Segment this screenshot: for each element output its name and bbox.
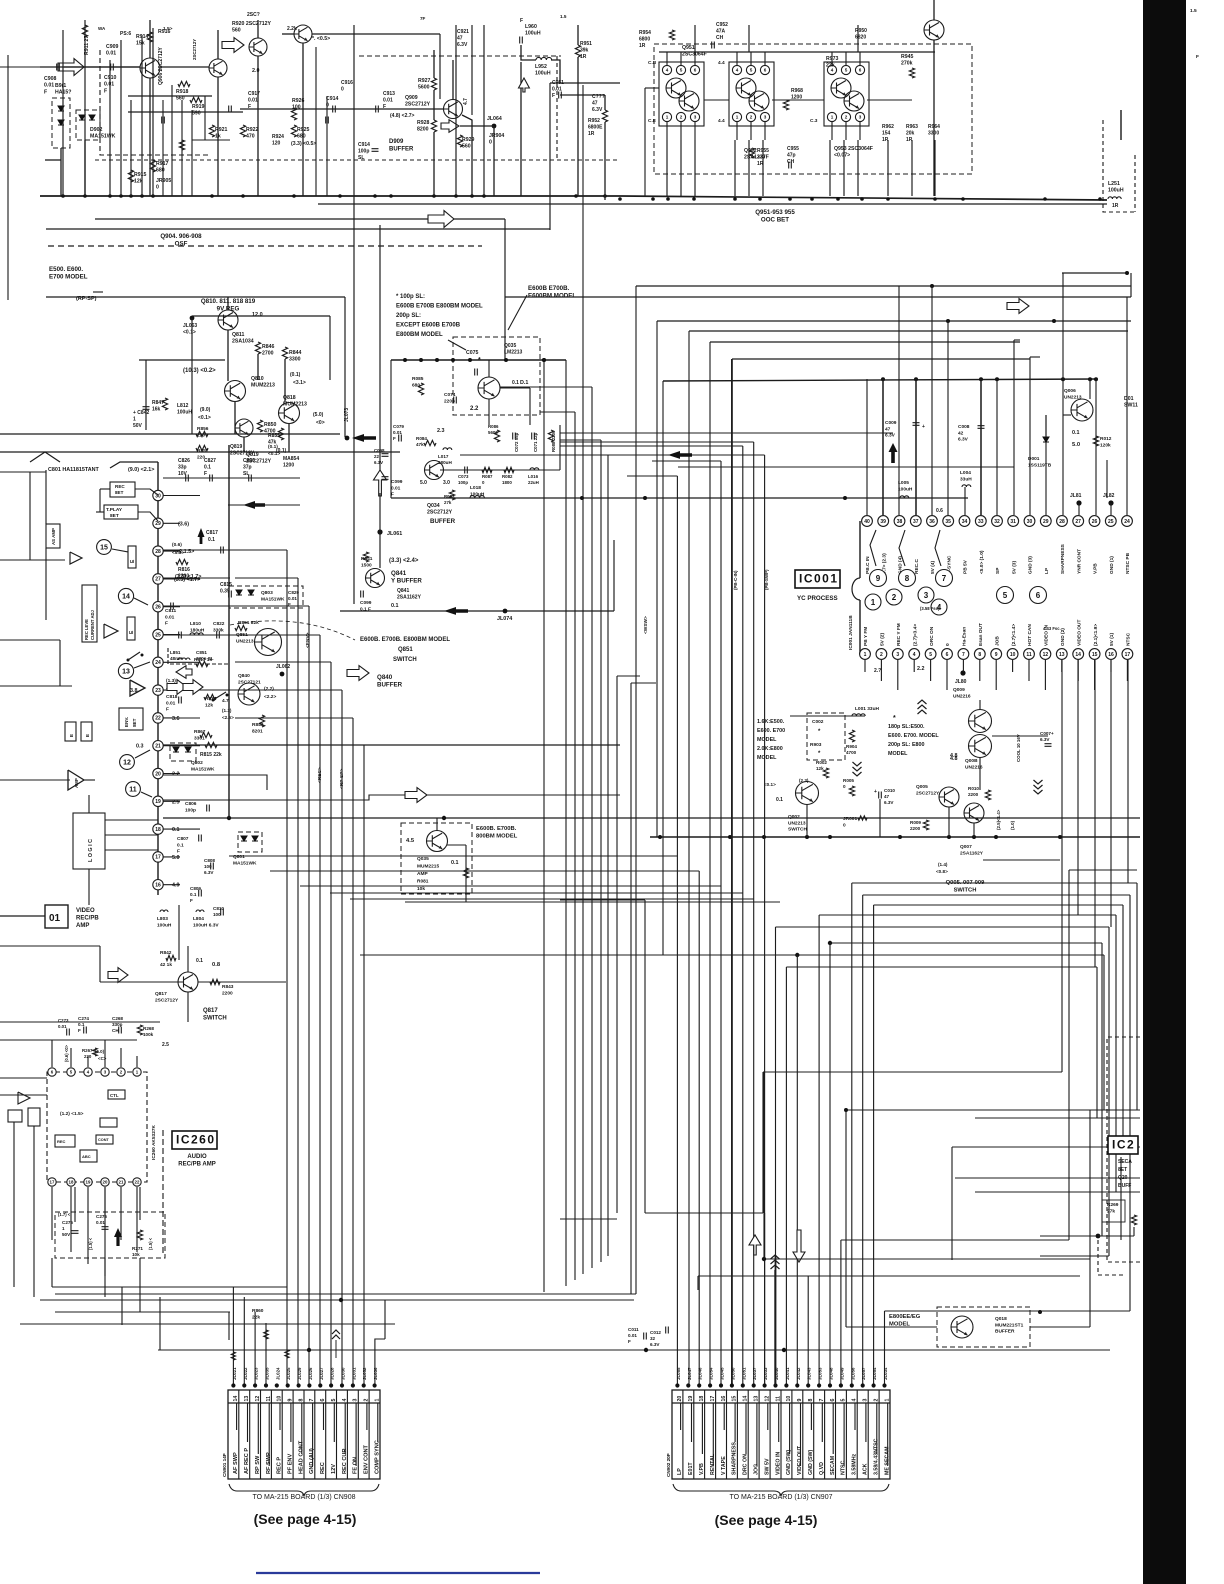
wire pin30: [163, 495, 200, 497]
svg-text:R268: R268: [143, 1026, 154, 1031]
svg-text:2: 2: [892, 593, 897, 602]
wire q035: [436, 818, 438, 831]
pin 4 CN908: [346, 1390, 348, 1479]
cap C072: [513, 433, 516, 440]
pin 1 IC001: [860, 649, 871, 660]
svg-text:JL049: JL049: [839, 1367, 844, 1380]
svg-text:12: 12: [123, 760, 131, 767]
wire col1312: [55, 1311, 230, 1313]
resistor R857: [196, 445, 208, 450]
svg-text:2SA1162Y: 2SA1162Y: [397, 595, 422, 601]
svg-text:BUFFER: BUFFER: [377, 682, 403, 689]
svg-text:JL064: JL064: [487, 116, 502, 122]
svg-text:JL050: JL050: [730, 1367, 735, 1380]
svg-text:AMP: AMP: [76, 923, 89, 929]
wire re h1178: [955, 1177, 1140, 1179]
wire jl064: [460, 125, 494, 127]
svg-text:(2.5)<1.4>: (2.5)<1.4>: [996, 809, 1001, 830]
svg-text:680: 680: [156, 168, 165, 174]
svg-text:R903: R903: [810, 742, 822, 748]
blue pen line: [256, 1572, 540, 1574]
svg-text:Q034: Q034: [427, 503, 440, 509]
svg-text:C072 55p: C072 55p: [514, 432, 519, 452]
svg-text:3: 3: [924, 591, 929, 600]
wire mid bus 837: [650, 836, 1140, 838]
svg-text:GND (2): GND (2): [1060, 628, 1066, 646]
transistor Q008a: [969, 710, 992, 733]
svg-text:100: 100: [213, 912, 221, 917]
svg-text:10: 10: [1010, 652, 1016, 658]
svg-text:0.01: 0.01: [288, 596, 297, 601]
svg-text:31: 31: [1010, 519, 1016, 525]
pin 20 of IC201: [153, 768, 163, 778]
svg-text:19: 19: [688, 1396, 694, 1402]
svg-text:Q802: Q802: [191, 760, 203, 766]
svg-text:12: 12: [1043, 652, 1049, 658]
resistor R928: [431, 120, 436, 132]
svg-text:<C>: <C>: [98, 1056, 107, 1061]
svg-text:42: 42: [958, 430, 964, 436]
svg-text:MA151WK: MA151WK: [233, 860, 257, 866]
wire pin16: [163, 884, 180, 886]
pin dot CN907 2: [872, 1383, 876, 1387]
wire q904: [302, 43, 304, 196]
IC260 inner bits: [108, 1090, 125, 1099]
svg-text:5: 5: [929, 652, 932, 658]
svg-text:0.01: 0.01: [628, 1333, 637, 1338]
svg-text:9: 9: [288, 1399, 294, 1402]
svg-text:42 1k: 42 1k: [160, 962, 172, 968]
svg-text:<2.2>: <2.2>: [264, 694, 276, 700]
pin 29 IC001: [1040, 516, 1051, 527]
svg-text:Q953 2SC3064F: Q953 2SC3064F: [834, 146, 873, 152]
svg-text:(9.0): (9.0): [200, 407, 211, 413]
box E1: [128, 546, 136, 568]
wire re h1192: [975, 1191, 1140, 1193]
pin 20 CN907 sep: [682, 1390, 684, 1479]
svg-text:R816: R816: [178, 567, 190, 573]
wire bundleB x287: [286, 550, 288, 1384]
svg-text:C955: C955: [787, 146, 799, 152]
svg-text:100p: 100p: [458, 480, 468, 485]
svg-text:C.3: C.3: [810, 118, 818, 124]
node 15: [97, 540, 112, 555]
svg-text:JL037: JL037: [752, 1367, 757, 1380]
pin 12 CN907 sep: [769, 1390, 771, 1479]
wire feeder pin15 heavy: [731, 359, 733, 1384]
svg-text:JL052: JL052: [362, 1367, 367, 1380]
wire pin24 v: [1126, 297, 1128, 515]
svg-text:PF ENV: PF ENV: [288, 1454, 294, 1474]
svg-text:BUFFER: BUFFER: [389, 147, 414, 153]
svg-text:10: 10: [277, 1396, 283, 1402]
transistor Q840: [238, 683, 260, 705]
wire feeder pin11 heavy: [775, 1255, 777, 1384]
svg-text:R915: R915: [134, 172, 147, 178]
svg-text:(1.2) <1.5>: (1.2) <1.5>: [60, 1111, 84, 1117]
transistor Q817: [178, 972, 198, 992]
arrow hd conn: [793, 1230, 805, 1262]
svg-text:JL073: JL073: [344, 408, 350, 422]
svg-text:R844: R844: [289, 350, 302, 356]
box E2: [127, 617, 135, 640]
svg-text:3300: 3300: [289, 357, 301, 363]
svg-text:(3.6): (3.6): [178, 521, 189, 527]
svg-text:R924: R924: [272, 134, 284, 140]
wire rcol 1116: [1115, 915, 1117, 1192]
wire upper h433: [560, 432, 893, 434]
svg-text:JL057: JL057: [861, 1367, 866, 1380]
svg-text:12: 12: [764, 1396, 770, 1402]
svg-text:37p: 37p: [243, 465, 252, 471]
resistor R084: [424, 440, 436, 445]
wire q909c: [433, 50, 435, 78]
svg-text:0.1: 0.1: [196, 958, 203, 964]
svg-text:<REC>: <REC>: [317, 767, 323, 783]
svg-text:7: 7: [962, 652, 965, 658]
svg-text:Q002: Q002: [788, 814, 800, 820]
svg-text:0.01: 0.01: [58, 1024, 67, 1029]
dashed box Q018: [937, 1307, 1030, 1347]
wire bundleA x566: [565, 360, 567, 1286]
svg-text:<0>: <0>: [316, 420, 325, 426]
svg-text:23: 23: [155, 688, 161, 694]
svg-text:680: 680: [412, 382, 420, 388]
svg-text:17: 17: [1125, 652, 1131, 658]
svg-text:100k: 100k: [143, 1032, 154, 1037]
svg-text:C917: C917: [248, 91, 260, 97]
resistor R867: [200, 732, 212, 737]
inductor L952: [536, 57, 552, 60]
callout line: [448, 340, 466, 350]
svg-text:JL036: JL036: [373, 1367, 378, 1380]
svg-text:AUDIO: AUDIO: [187, 1154, 207, 1160]
svg-text:1: 1: [871, 598, 876, 607]
svg-text:JL026: JL026: [308, 1367, 313, 1380]
cap C914a: [333, 106, 336, 113]
svg-text:D01: D01: [1124, 396, 1134, 402]
svg-text:IC260 AK5327K: IC260 AK5327K: [151, 1124, 157, 1160]
pin dot CN907 9: [795, 1383, 799, 1387]
svg-text:(2.2): (2.2): [264, 686, 274, 692]
svg-text:24: 24: [1124, 519, 1130, 525]
svg-text:0.1: 0.1: [451, 860, 459, 866]
wire feeder pin1: [884, 1311, 886, 1384]
cap C818: [179, 697, 182, 704]
svg-text:MUM221ST1: MUM221ST1: [995, 1322, 1024, 1328]
wire q817: [100, 981, 178, 983]
transistor Q909: [444, 100, 463, 119]
svg-text:4700: 4700: [846, 750, 857, 755]
svg-text:F: F: [190, 898, 193, 903]
pin 19 IC260 bot: [84, 1178, 92, 1186]
wire ll v2: [33, 1180, 35, 1297]
svg-text:B9(1: B9(1: [55, 83, 66, 89]
svg-text:8: 8: [978, 652, 981, 658]
transistor Q851: [255, 629, 282, 656]
svg-text:3: 3: [896, 652, 899, 658]
svg-text:VIDEO OUT: VIDEO OUT: [1076, 620, 1082, 646]
pin 17 of IC201: [153, 852, 163, 862]
svg-text:R846: R846: [262, 344, 275, 350]
svg-text:32: 32: [650, 1336, 656, 1341]
wire re v2: [1120, 1157, 1122, 1240]
resistor R842: [166, 955, 176, 960]
svg-text:(2.3): (2.3): [799, 778, 809, 783]
svg-text:0: 0: [945, 643, 951, 646]
wire tb v163: [162, 100, 164, 196]
border bar (page binding scan artifact): [1143, 0, 1186, 1584]
pin 33 IC001: [975, 516, 986, 527]
svg-text:SWITCH: SWITCH: [954, 887, 977, 893]
svg-text:33uH: 33uH: [960, 476, 972, 482]
pin 22 IC260 bot: [133, 1178, 141, 1186]
svg-text:MA151WK: MA151WK: [261, 596, 285, 602]
svg-text:Q841: Q841: [391, 570, 407, 577]
pin 10 IC001: [1007, 649, 1018, 660]
svg-text:34: 34: [962, 519, 968, 525]
cap C273: [67, 1029, 70, 1036]
svg-text:C801 HA11815TANT: C801 HA11815TANT: [48, 467, 100, 473]
svg-text:JL041: JL041: [785, 1367, 790, 1380]
pin 6 IC001: [942, 649, 953, 660]
stair dots: [930, 284, 934, 288]
node 4: [931, 599, 947, 615]
svg-text:220: 220: [197, 432, 205, 438]
arrow up c275: [114, 1228, 122, 1246]
svg-text:R084: R084: [416, 436, 427, 441]
svg-text:3: 3: [863, 1399, 869, 1402]
box E pair: [65, 722, 76, 741]
svg-text:2.2: 2.2: [470, 406, 479, 412]
svg-text:1: 1: [736, 115, 739, 120]
svg-text:21: 21: [155, 744, 161, 750]
svg-text:REC: REC: [115, 484, 125, 489]
svg-text:4.7: 4.7: [222, 698, 229, 704]
svg-text:50V: 50V: [62, 1232, 71, 1237]
wire bus360: [391, 359, 566, 361]
svg-text:L803: L803: [157, 916, 168, 922]
svg-text:R088 2200: R088 2200: [551, 430, 556, 452]
wire pin23: [163, 689, 180, 691]
connector CN902 box: [672, 1390, 890, 1479]
pin dot CN907 18: [697, 1383, 701, 1387]
wire rcol 1109: [1108, 927, 1110, 1256]
svg-text:16: 16: [155, 883, 161, 889]
svg-text:* 100p SL:: * 100p SL:: [396, 294, 425, 300]
svg-text:6: 6: [1036, 591, 1041, 600]
pin 18 CN907 sep: [704, 1390, 706, 1479]
svg-text:C851: C851: [196, 650, 207, 655]
wire re h1147: [952, 1146, 1140, 1148]
svg-text:PB Y FM: PB Y FM: [863, 627, 869, 646]
svg-text:C275: C275: [62, 1220, 73, 1225]
svg-text:Q803: Q803: [261, 590, 273, 596]
svg-text:0: 0: [156, 185, 159, 191]
wire pin27: [163, 578, 200, 580]
dashed enclosure Q951-955: [654, 44, 972, 174]
svg-text:R860: R860: [252, 1308, 264, 1314]
svg-text:9: 9: [995, 652, 998, 658]
pin 38 IC001: [894, 516, 905, 527]
transistor Q819: [235, 419, 253, 437]
wire pin29 v: [1045, 415, 1047, 515]
svg-text:220: 220: [84, 1054, 92, 1059]
pin 12 CN908: [260, 1390, 262, 1479]
svg-text:(3.3) <0.5>: (3.3) <0.5>: [291, 141, 316, 147]
resistor R847: [162, 398, 167, 410]
svg-text:6: 6: [320, 1399, 326, 1402]
svg-text:1k: 1k: [215, 134, 221, 140]
svg-text:R841: R841: [361, 556, 373, 562]
pin 6 IC260 top: [48, 1068, 56, 1076]
wire col1348: [158, 1349, 1110, 1351]
switch contacts: [127, 659, 130, 662]
cap C808: [211, 863, 214, 870]
svg-text:SW 5V: SW 5V: [764, 1458, 770, 1475]
svg-text:UN2213: UN2213: [236, 638, 254, 644]
svg-text:JL023: JL023: [254, 1367, 259, 1380]
pin 19 CN907 sep: [693, 1390, 695, 1479]
wire upper h446: [560, 445, 743, 447]
pin 5 CN907 sep: [845, 1390, 847, 1479]
svg-text:<0.8>: <0.8>: [936, 869, 948, 874]
svg-text:AF SWP: AF SWP: [233, 1452, 239, 1474]
svg-text:R920 2SC2712Y: R920 2SC2712Y: [232, 21, 271, 27]
cap C275: [72, 1231, 79, 1234]
pin 19 of IC201: [153, 796, 163, 806]
svg-text:14: 14: [743, 1396, 749, 1402]
svg-text:MA854: MA854: [283, 456, 299, 462]
wire feeder pin18: [698, 871, 700, 1384]
svg-text:6: 6: [830, 1399, 836, 1402]
svg-text:C830: C830: [243, 458, 255, 464]
transistor Q841: [366, 569, 385, 588]
pin 22 of IC201: [153, 713, 163, 723]
node 11: [126, 782, 141, 797]
pin dot CN907 16: [719, 1383, 723, 1387]
svg-text:(See page 4-15): (See page 4-15): [715, 1512, 818, 1528]
dashed box Q035: [401, 823, 472, 894]
svg-text:15: 15: [100, 545, 108, 552]
box REC CURRENT ADJ: [82, 585, 97, 642]
svg-text:REC/PB AMP: REC/PB AMP: [178, 1162, 215, 1168]
resistor R846: [255, 342, 260, 354]
pin 6 CN908: [325, 1390, 327, 1479]
svg-text:11: 11: [266, 1396, 272, 1402]
svg-text:R851 82k: R851 82k: [238, 620, 259, 626]
wire h902: [405, 901, 780, 903]
wire bundleC x617: [616, 676, 618, 1213]
svg-text:1.5: 1.5: [560, 14, 567, 19]
resistor R856: [196, 431, 208, 436]
svg-text:CH: CH: [112, 1028, 119, 1033]
svg-text:15: 15: [732, 1396, 738, 1402]
svg-text:(2.1)<1.9>: (2.1)<1.9>: [1093, 624, 1099, 646]
svg-text:R917: R917: [156, 161, 169, 167]
svg-text:6.3V: 6.3V: [884, 800, 894, 805]
wire bundleA x592: [591, 387, 593, 1268]
wire jl061: [379, 493, 381, 568]
svg-text:SP: SP: [995, 567, 1001, 574]
svg-text:AMP: AMP: [417, 871, 428, 877]
svg-text:R082: R082: [502, 474, 513, 479]
svg-text:SL: SL: [243, 471, 249, 477]
rail dots: [881, 377, 885, 381]
wire stair4: [710, 341, 1020, 343]
svg-text:*. <0.5>: *. <0.5>: [312, 36, 330, 42]
wire rp-sp line: [46, 296, 345, 298]
resistor R917: [150, 160, 155, 172]
svg-text:AMP: AMP: [74, 778, 79, 788]
connector CN901 box: [228, 1390, 380, 1479]
svg-text:26: 26: [1092, 519, 1098, 525]
pin 2 IC001: [876, 649, 887, 660]
svg-text:16: 16: [1108, 652, 1114, 658]
resistor R921: [209, 125, 214, 137]
svg-text:IC260: IC260: [176, 1133, 216, 1147]
wire chain vert 229: [228, 445, 230, 818]
wire feeder CN908 pin1: [375, 1339, 385, 1384]
svg-text:T.PLAY: T.PLAY: [106, 507, 123, 513]
wire L952: [521, 45, 536, 60]
IC260 bot wires: [51, 1187, 53, 1240]
logic wires: [105, 819, 158, 821]
arrow stair: [1007, 299, 1029, 314]
svg-text:<0.1>: <0.1>: [764, 782, 776, 787]
cap C007: [1045, 744, 1052, 747]
cap C815: [229, 591, 232, 598]
svg-text:24: 24: [155, 660, 161, 666]
svg-text:R838: R838: [205, 696, 217, 702]
svg-text:6: 6: [694, 68, 697, 73]
svg-text:0: 0: [843, 784, 846, 789]
svg-text:0: 0: [489, 140, 492, 146]
resistor R926: [291, 108, 296, 120]
svg-text:6.3V: 6.3V: [204, 870, 214, 875]
arrow fl1: [243, 501, 265, 509]
pin 39 IC001: [878, 516, 889, 527]
IC package Q951: [659, 62, 704, 126]
svg-text:27k: 27k: [444, 500, 452, 505]
svg-text:0.01: 0.01: [96, 1220, 105, 1225]
svg-text:8: 8: [905, 574, 910, 583]
svg-text:R271: R271: [132, 1246, 143, 1251]
svg-text:32: 32: [994, 519, 1000, 525]
svg-text:20: 20: [155, 771, 161, 777]
svg-text:F: F: [104, 88, 107, 94]
svg-text:5: 5: [750, 68, 753, 73]
wire tb v316: [315, 47, 317, 196]
svg-text:E600B. E700B. E800BM MODEL: E600B. E700B. E800BM MODEL: [360, 637, 450, 643]
svg-text:4: 4: [852, 1399, 858, 1402]
svg-text:(1.0): (1.0): [1010, 820, 1015, 830]
svg-text:4.7: 4.7: [463, 98, 469, 105]
IC001 body outline: [859, 521, 861, 578]
svg-text:0.1: 0.1: [208, 537, 215, 543]
wire bundleA x575: [574, 412, 576, 1280]
svg-text:8ET: 8ET: [132, 718, 137, 727]
pin 24 IC001: [1122, 516, 1133, 527]
svg-text:100p: 100p: [358, 149, 369, 155]
svg-text:SECA: SECA: [1118, 1159, 1132, 1165]
wire r269: [1040, 1235, 1102, 1237]
svg-text:C268: C268: [112, 1016, 123, 1021]
svg-text:C.E: C.E: [648, 118, 657, 124]
svg-text:40: 40: [864, 519, 870, 525]
svg-text:(0.1): (0.1): [290, 372, 301, 378]
svg-text:CH: CH: [716, 35, 724, 41]
